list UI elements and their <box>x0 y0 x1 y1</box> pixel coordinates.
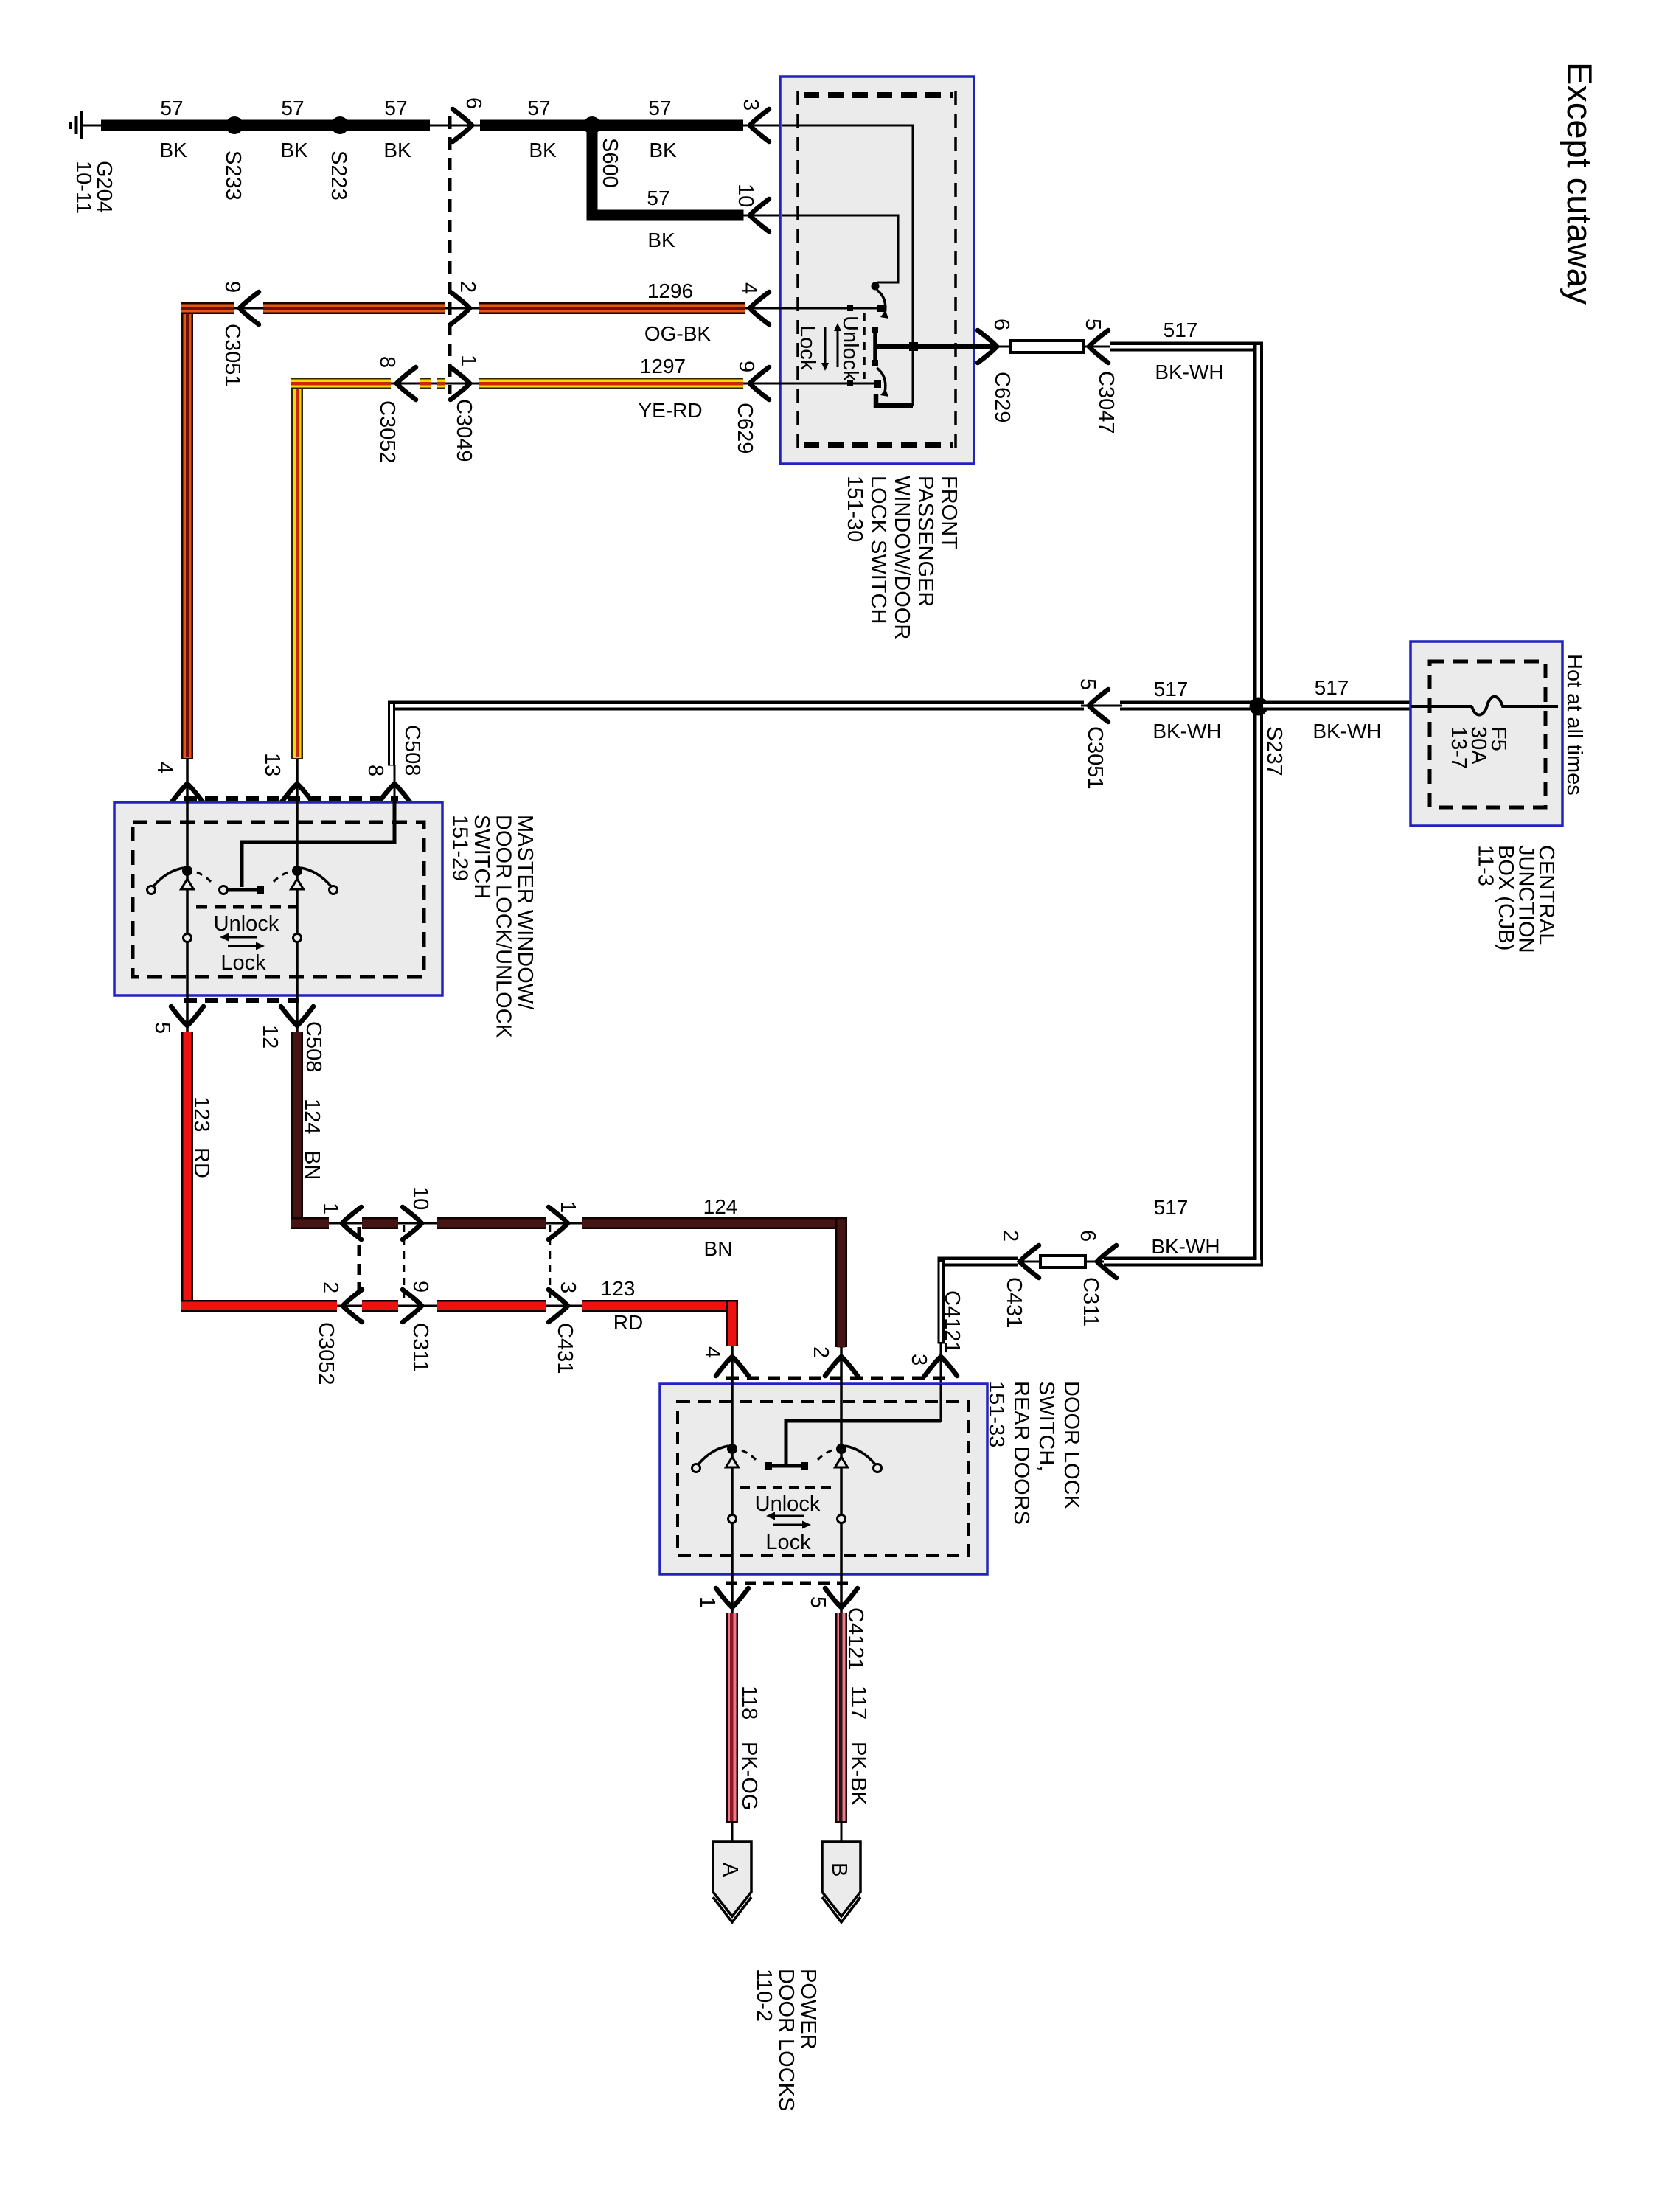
wire 1296 OG-BK <box>181 302 782 759</box>
svg-text:BK: BK <box>529 139 557 161</box>
svg-text:RD: RD <box>613 1311 643 1334</box>
wire 117 PK-BK <box>835 1613 847 1843</box>
arrow pin 1 C3052 on BN <box>342 1207 361 1239</box>
arrow pin 10 <box>750 199 769 232</box>
svg-text:57: 57 <box>648 97 671 119</box>
svg-text:BK: BK <box>383 139 411 161</box>
arrow pin 2 rear <box>825 1357 858 1376</box>
svg-text:5: 5 <box>1081 319 1105 330</box>
svg-text:517: 517 <box>1315 676 1349 699</box>
upper wiper pivot dot <box>872 282 880 291</box>
svg-text:C3052: C3052 <box>314 1322 338 1385</box>
lock/unlock indicator (rear) <box>740 1486 838 1489</box>
arrow pin 5 (out) rear <box>825 1588 858 1607</box>
svg-text:C508: C508 <box>400 725 424 776</box>
svg-text:124: 124 <box>300 1099 324 1134</box>
svg-text:C3051: C3051 <box>1083 726 1107 789</box>
connector C431 dashed line <box>549 1225 552 1300</box>
svg-text:9: 9 <box>734 361 758 372</box>
connector C3052 dashed line <box>358 1227 361 1299</box>
arrow pin 5 C3051 <box>1089 689 1108 722</box>
svg-text:5: 5 <box>150 1022 174 1034</box>
internal feed from pin 3 rear <box>786 1421 941 1464</box>
svg-text:S600: S600 <box>598 138 622 188</box>
svg-text:517: 517 <box>1154 678 1189 700</box>
lock/unlock position indicator <box>863 313 866 379</box>
svg-text:C431: C431 <box>1002 1277 1026 1328</box>
arrow pin 4 rear <box>716 1357 748 1376</box>
svg-text:C311: C311 <box>408 1323 432 1372</box>
travel contacts rear <box>728 1515 737 1523</box>
in-line connector body C311/C431 <box>1040 1256 1085 1267</box>
connector C4121 dashed line (bottom) <box>726 1582 848 1585</box>
lock/unlock indicator (master) <box>196 905 296 909</box>
wire 1297 YE-RD <box>291 378 782 759</box>
svg-text:1: 1 <box>695 1596 719 1608</box>
svg-text:BK-WH: BK-WH <box>1155 361 1223 383</box>
svg-text:C3052: C3052 <box>375 400 399 463</box>
arrow pin 6 on 57 wire <box>453 109 472 142</box>
arrow pin 4 master <box>171 784 204 803</box>
upper wiper arc <box>877 290 886 314</box>
pin 3 lead into rear switch <box>940 1342 942 1422</box>
connector C629 dashed boundary (inner dashed rect) <box>804 92 953 98</box>
arrow pin 3 <box>750 109 769 142</box>
arrow pin 1 C3049 on YE-RD <box>451 367 470 400</box>
internal pin line 13-12 <box>296 759 299 1032</box>
off-page terminal B <box>822 1842 860 1922</box>
svg-text:9: 9 <box>220 281 244 293</box>
wire 517 BK-WH double-line: run from S237 to C508 corner <box>388 700 1253 712</box>
arrow pin 8 C508 <box>378 784 411 803</box>
svg-text:10: 10 <box>408 1186 432 1210</box>
arrow pin 3 rear <box>925 1357 957 1376</box>
svg-text:Unlock: Unlock <box>214 912 279 936</box>
svg-text:C3049: C3049 <box>452 399 476 462</box>
svg-text:BK-WH: BK-WH <box>1312 720 1381 742</box>
svg-text:BK-WH: BK-WH <box>1151 1235 1220 1258</box>
internal wire from pin 10 <box>782 215 898 282</box>
arrow pin 13 master <box>281 784 313 803</box>
wire 118 PK-OG <box>726 1613 738 1843</box>
splice S233 <box>226 116 243 134</box>
svg-text:57: 57 <box>647 187 669 209</box>
svg-text:Lock: Lock <box>220 951 266 975</box>
svg-text:BN: BN <box>300 1150 324 1180</box>
svg-text:Lock: Lock <box>796 325 819 371</box>
svg-text:1: 1 <box>456 355 480 366</box>
svg-text:3: 3 <box>739 99 762 111</box>
svg-text:Except cutaway: Except cutaway <box>1560 62 1599 305</box>
lower contact to pin3 line (thick L) <box>876 394 913 406</box>
svg-text:6: 6 <box>1076 1230 1099 1242</box>
svg-text:1: 1 <box>556 1201 580 1213</box>
svg-text:Unlock: Unlock <box>838 316 862 381</box>
svg-text:OG-BK: OG-BK <box>644 322 712 345</box>
left wiper (master) <box>182 866 192 876</box>
wire 57 BK segment G204 to connector <box>101 120 430 131</box>
off-page terminal A <box>713 1842 751 1922</box>
internal wire from pin 3 down right side <box>782 125 913 406</box>
svg-text:8: 8 <box>375 356 399 368</box>
svg-text:118: 118 <box>737 1686 761 1719</box>
svg-text:6: 6 <box>462 97 485 109</box>
svg-text:Unlock: Unlock <box>755 1492 821 1516</box>
svg-text:6: 6 <box>990 319 1013 330</box>
svg-text:8: 8 <box>364 765 387 776</box>
arrow pin 1 C431 on BN <box>549 1207 568 1239</box>
svg-text:A: A <box>718 1863 742 1877</box>
output wire to pin 6 <box>877 344 997 349</box>
wire 57 BK branch from S600 <box>587 125 598 215</box>
connector C311 dashed line <box>403 1225 406 1300</box>
svg-text:Hot at all times: Hot at all times <box>1562 654 1586 796</box>
svg-text:C4121: C4121 <box>940 1290 964 1353</box>
door lock switch rear doors box 151-33 <box>660 1384 987 1574</box>
svg-text:57: 57 <box>281 97 304 119</box>
arrow pin 2 C3052 on RD <box>343 1290 362 1322</box>
center contact bar <box>224 888 260 892</box>
left wiper (rear) <box>727 1444 737 1454</box>
connector C4121 dashed line (top) <box>726 1377 947 1380</box>
svg-text:13: 13 <box>260 753 284 776</box>
svg-text:517: 517 <box>1164 319 1198 341</box>
svg-text:Lock: Lock <box>765 1531 811 1554</box>
wire 124 BN from master pin 12 <box>291 1032 847 1348</box>
svg-text:4: 4 <box>700 1346 724 1358</box>
arrow pin 9 <box>750 367 769 400</box>
right wiper (master) <box>292 866 302 876</box>
arrow pin 6 output <box>978 330 997 363</box>
svg-text:BK: BK <box>280 139 308 161</box>
svg-text:2: 2 <box>998 1230 1022 1242</box>
svg-text:57: 57 <box>384 97 407 119</box>
svg-text:2: 2 <box>456 281 479 293</box>
svg-text:C508: C508 <box>302 1021 325 1072</box>
internal pin line 4-5 <box>186 759 189 1032</box>
svg-text:1: 1 <box>319 1203 342 1214</box>
svg-text:YE-RD: YE-RD <box>638 399 702 422</box>
svg-text:C629: C629 <box>990 372 1014 422</box>
junction on output <box>909 342 918 351</box>
pin 4 contact <box>877 305 885 312</box>
central junction box (CJB) <box>1411 641 1562 826</box>
right wiper (rear) <box>836 1444 846 1454</box>
svg-text:124: 124 <box>703 1195 738 1218</box>
arrow pin 6 C311 on BK-WH <box>1097 1245 1116 1278</box>
svg-text:123: 123 <box>189 1096 213 1132</box>
svg-text:C311: C311 <box>1079 1277 1102 1326</box>
svg-text:1296: 1296 <box>647 279 693 302</box>
arrow pin 12 (out) <box>281 1006 313 1026</box>
arrow pin 8 C3052 on YE-RD <box>397 367 416 400</box>
svg-text:C431: C431 <box>553 1323 577 1374</box>
svg-text:C629: C629 <box>733 403 757 453</box>
wire 517 BK-WH bottom run to rear switch <box>938 1257 1261 1344</box>
svg-text:5: 5 <box>806 1596 829 1608</box>
svg-text:BN: BN <box>704 1237 733 1260</box>
svg-text:C3047: C3047 <box>1094 371 1118 434</box>
wire 517 BK-WH double-line: right vertical run <box>1110 342 1263 1267</box>
svg-text:57: 57 <box>527 97 550 119</box>
arrow pin 10 C311 on BN <box>403 1207 422 1239</box>
connector C508 dashed line (top) <box>184 796 398 801</box>
svg-text:PK-OG: PK-OG <box>737 1742 761 1810</box>
svg-text:123: 123 <box>601 1277 636 1300</box>
svg-text:G20410-11: G20410-11 <box>72 161 116 214</box>
connector C508 dashed line (bottom) <box>184 998 299 1003</box>
fuse F5 30A <box>1411 697 1558 769</box>
svg-text:S237: S237 <box>1262 726 1286 776</box>
center contact bar rear <box>768 1464 804 1468</box>
arrow pin 1 (out) rear <box>716 1588 748 1607</box>
wire 517 BK-WH from S237 to CJB <box>1263 701 1411 711</box>
wiper common bracket <box>872 327 878 333</box>
internal power feed from pin 8 <box>242 796 394 887</box>
pin 9 contact <box>874 380 881 388</box>
svg-text:S223: S223 <box>327 150 350 201</box>
wire thin through connector 6 <box>430 125 480 127</box>
svg-text:C3051: C3051 <box>220 324 244 386</box>
svg-text:4: 4 <box>153 762 176 773</box>
svg-text:RD: RD <box>189 1147 213 1178</box>
svg-text:BK: BK <box>647 229 675 251</box>
svg-text:2: 2 <box>809 1346 832 1358</box>
svg-text:BK-WH: BK-WH <box>1152 720 1221 742</box>
svg-text:117: 117 <box>846 1686 870 1719</box>
arrow pin 9 C3051 on OG-BK <box>240 292 259 324</box>
svg-text:4: 4 <box>737 282 761 294</box>
svg-text:517: 517 <box>1154 1196 1189 1219</box>
arrow pin 5 C3047 <box>1089 330 1108 363</box>
svg-text:2: 2 <box>319 1281 342 1293</box>
svg-text:57: 57 <box>160 97 183 119</box>
svg-text:10: 10 <box>734 184 757 207</box>
arrow pin 9 C311 on RD <box>403 1290 422 1322</box>
svg-text:9: 9 <box>408 1281 432 1293</box>
svg-text:PK-BK: PK-BK <box>846 1742 870 1806</box>
lower wiper arc <box>877 368 886 392</box>
svg-text:1297: 1297 <box>640 355 686 378</box>
svg-text:B: B <box>827 1863 851 1877</box>
svg-text:3: 3 <box>556 1281 580 1293</box>
ground G204 <box>71 111 116 214</box>
svg-text:5: 5 <box>1076 678 1099 690</box>
arrow pin 4 <box>750 292 769 324</box>
connector dashed line C3049 <box>448 116 452 394</box>
arrow pin 2 C3049 on OG-BK <box>451 292 470 324</box>
arrow pin 5 (out) <box>171 1006 204 1026</box>
in-line connector body C629/C3047 <box>1011 341 1084 352</box>
wire 123 RD from master pin 5 <box>181 1032 738 1346</box>
splice S223 <box>331 116 349 134</box>
wire 57 BK segment connector to S600 <box>480 120 743 131</box>
svg-text:12: 12 <box>258 1025 282 1048</box>
svg-text:BK: BK <box>159 139 187 161</box>
splice S600 <box>583 116 601 134</box>
svg-text:BK: BK <box>649 139 677 161</box>
splice S237 <box>1250 698 1268 716</box>
internal pin lines rear <box>940 1384 942 1422</box>
svg-text:3: 3 <box>907 1354 931 1366</box>
arrow pin 3 C431 on RD <box>549 1290 568 1322</box>
front passenger window/door lock switch box 151-30 <box>745 77 997 464</box>
wire 517 BK-WH drop to master switch pin 8 (C508) <box>388 701 395 843</box>
arrow pin 2 C431 on BK-WH <box>1020 1245 1039 1278</box>
travel contacts <box>184 934 192 942</box>
svg-text:S233: S233 <box>221 150 245 201</box>
master window/door lock/unlock switch box 151-29 <box>114 802 442 995</box>
wire thin into pin 3 <box>743 125 914 127</box>
